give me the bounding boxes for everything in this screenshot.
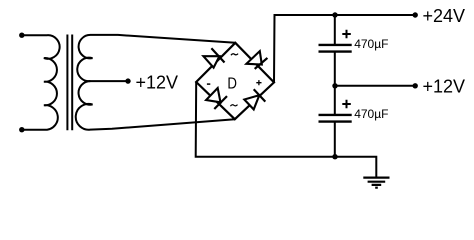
svg-text:+12V: +12V <box>423 77 466 97</box>
svg-text:+24V: +24V <box>423 6 466 26</box>
svg-text:470µF: 470µF <box>354 107 388 121</box>
svg-text:+12V: +12V <box>136 73 179 93</box>
svg-text:D: D <box>227 76 237 93</box>
svg-text:470µF: 470µF <box>354 37 388 51</box>
